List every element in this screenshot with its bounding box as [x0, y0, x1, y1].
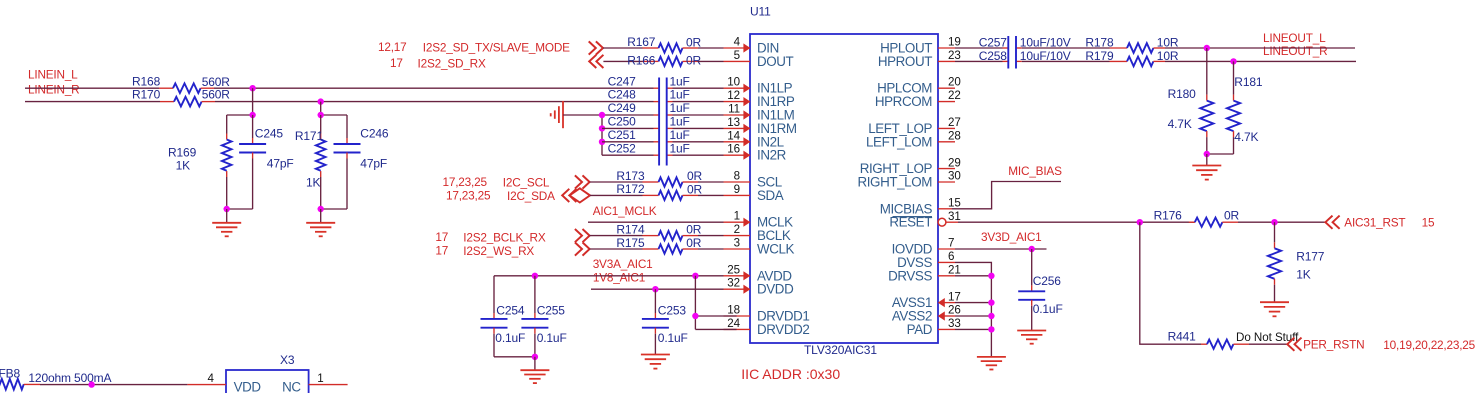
node DRVSS [988, 273, 994, 279]
svg-text:21: 21 [948, 263, 961, 276]
resistor R168 560R [132, 75, 230, 93]
svg-text:14: 14 [727, 129, 740, 142]
svg-text:R178: R178 [1085, 35, 1114, 49]
svg-text:PER_RSTN: PER_RSTN [1303, 338, 1364, 352]
capacitor plates C257/C258 right [1015, 36, 1017, 69]
wire IOVDD [955, 248, 1047, 250]
resistor R441 [1168, 330, 1300, 349]
svg-text:RIGHT_LOM: RIGHT_LOM [857, 175, 932, 190]
capacitor C251 1uF [608, 128, 690, 142]
wire C249 to IN1LM [673, 114, 724, 116]
capacitor plates column left [658, 78, 660, 166]
off-page connector I2S2_SD_TX (right chevrons) [589, 41, 603, 54]
wire R172 to SDA [698, 194, 724, 196]
svg-text:27: 27 [948, 116, 961, 129]
wire bus to C250 [602, 127, 654, 129]
svg-text:LINEIN_R: LINEIN_R [28, 83, 80, 97]
svg-text:0.1uF: 0.1uF [1033, 302, 1063, 316]
wire HPROUT to C258 [955, 60, 1003, 62]
wire 3V3A riser to DRVDD1/DRVDD2 [695, 276, 736, 330]
wire bus to C251 [602, 141, 654, 143]
node at R171 ground [318, 206, 324, 212]
svg-text:LINEOUT_L: LINEOUT_L [1263, 31, 1326, 45]
node R177 tap [1271, 219, 1277, 225]
svg-text:R167: R167 [627, 35, 656, 49]
node at C245 tee [249, 112, 255, 118]
wire R167 to DIN [698, 47, 724, 49]
svg-text:3V3D_AIC1: 3V3D_AIC1 [981, 230, 1042, 244]
pin 19 HPLOUT stub [938, 47, 955, 49]
resistor R177 1K [1268, 222, 1325, 302]
svg-text:R177: R177 [1296, 250, 1325, 264]
node R441 riser [1137, 219, 1143, 225]
svg-text:HPROUT: HPROUT [878, 54, 932, 69]
svg-text:VDD: VDD [234, 380, 262, 393]
svg-text:1K: 1K [176, 159, 191, 173]
SECTION: right pin names [857, 41, 932, 337]
resistor R178 10R [1085, 35, 1178, 53]
pin 21 DRVSS stub [938, 275, 955, 277]
svg-text:18: 18 [727, 304, 740, 317]
capacitor C252 1uF [608, 141, 690, 155]
capacitor C255 0.1uF [521, 276, 566, 357]
wire C254/C255 bottom tee [494, 356, 535, 358]
node bus C250 [599, 125, 605, 131]
wire LINEIN_L left [25, 87, 159, 89]
svg-text:C247: C247 [608, 74, 637, 88]
pin 6 DVSS stub [938, 261, 955, 263]
sideways ground at input caps [551, 101, 563, 128]
node DRVDD riser on AVDD rail [692, 273, 698, 279]
wire LINEIN_R to C248 [215, 101, 654, 103]
svg-text:12: 12 [727, 89, 740, 102]
svg-text:C257: C257 [979, 35, 1008, 49]
pin 22 HPRCOM stub [938, 101, 955, 103]
capacitor C258 10uF/10V [979, 49, 1071, 63]
wire to R172 [590, 194, 643, 196]
resistor R169 1K [168, 115, 232, 209]
svg-text:DOUT: DOUT [757, 54, 794, 69]
capacitor C248 1uF [608, 88, 690, 102]
svg-text:TLV320AIC31: TLV320AIC31 [804, 343, 877, 357]
svg-text:47pF: 47pF [267, 156, 294, 170]
wire LINEIN_L to C247 [214, 87, 654, 89]
pin 3 WCLK stub [724, 248, 751, 250]
capacitor C245 47pF [239, 115, 293, 209]
svg-text:0R: 0R [686, 223, 702, 237]
wire to R173 [590, 181, 643, 183]
svg-text:30: 30 [948, 170, 961, 183]
svg-text:R173: R173 [616, 169, 645, 183]
svg-text:32: 32 [727, 277, 740, 290]
svg-text:IN2R: IN2R [757, 148, 787, 163]
pin 29 RIGHT_LOP stub [938, 168, 955, 170]
resistor R173 0R [616, 169, 702, 187]
svg-text:R441: R441 [1168, 330, 1197, 344]
resistor R167 0R [627, 35, 701, 53]
ground under R177 [1260, 302, 1289, 316]
svg-text:17: 17 [435, 230, 448, 244]
wire AIC1_MCLK to MCLK [588, 221, 724, 223]
pin 5 DOUT stub [724, 60, 751, 62]
svg-text:U11: U11 [750, 5, 771, 19]
pin 32 DVDD stub [724, 288, 751, 290]
node bus C251 [599, 139, 605, 145]
svg-text:PAD: PAD [907, 322, 933, 337]
ground under C254/C255 [520, 357, 549, 383]
svg-text:R176: R176 [1154, 209, 1183, 223]
svg-text:20: 20 [948, 76, 961, 89]
svg-text:17,23,25: 17,23,25 [446, 188, 491, 202]
svg-text:28: 28 [948, 129, 961, 142]
wire FB8 to X3 [40, 384, 187, 386]
node AVSS1 [988, 299, 994, 305]
svg-text:DVDD: DVDD [757, 282, 794, 297]
svg-text:LINEOUT_R: LINEOUT_R [1263, 44, 1327, 58]
svg-text:C255: C255 [537, 304, 566, 318]
wire branch down to R171/C246 [321, 102, 347, 115]
pin 24 DRVDD2 stub [724, 328, 751, 330]
svg-text:1K: 1K [306, 176, 321, 190]
pin 33 PAD stub [938, 328, 955, 330]
svg-text:1uF: 1uF [670, 128, 690, 142]
wire R441 to PER_RSTN [1249, 343, 1287, 345]
node on LINEIN_L [249, 85, 255, 91]
pin 26 AVSS2 stub [944, 315, 955, 317]
node PAD [988, 326, 994, 332]
svg-text:560R: 560R [202, 88, 231, 102]
wire bottom tee R169/C245 [227, 208, 253, 210]
ground under R180 [1192, 154, 1221, 180]
wire bottom tee R171/C246 [321, 208, 347, 210]
svg-text:11: 11 [728, 103, 740, 116]
svg-text:I2C_SCL: I2C_SCL [503, 175, 550, 189]
resistor R180 4.7K [1168, 48, 1214, 154]
pin 4 X3 stub [187, 384, 226, 386]
wire R173 to SCL [698, 181, 724, 183]
svg-text:C251: C251 [608, 128, 637, 142]
capacitor C249 1uF [608, 101, 690, 115]
wire C247 to IN1LP [673, 87, 724, 89]
svg-text:23: 23 [948, 49, 961, 62]
capacitor plates column right [666, 78, 668, 166]
pin 10 IN1LP stub [724, 87, 751, 89]
off-page connector I2C_SDA (bidirectional diamond) [562, 188, 590, 202]
svg-text:1K: 1K [1296, 268, 1311, 282]
capacitor C246 47pF [334, 115, 389, 209]
wire R175 to WCLK [698, 248, 724, 250]
wire ground bus vertical [601, 115, 603, 155]
svg-text:DRVDD2: DRVDD2 [757, 322, 809, 337]
svg-text:19: 19 [948, 36, 961, 49]
svg-text:1uF: 1uF [670, 141, 690, 155]
wire HPLOUT to C257 [955, 47, 1003, 49]
off-page connector I2S2_WS_RX (right chevrons) [575, 242, 590, 255]
svg-text:I2S2_SD_TX/SLAVE_MODE: I2S2_SD_TX/SLAVE_MODE [423, 41, 570, 55]
svg-text:I2S2_WS_RX: I2S2_WS_RX [463, 244, 534, 258]
pin 4 DIN stub [724, 47, 751, 49]
svg-text:5: 5 [734, 49, 740, 62]
node C256 tap [1029, 246, 1035, 252]
svg-text:10,19,20,22,23,25: 10,19,20,22,23,25 [1383, 338, 1475, 352]
svg-text:R170: R170 [132, 87, 161, 101]
svg-text:R181: R181 [1234, 75, 1263, 89]
pin 27 LEFT_LOP stub [938, 127, 955, 129]
wire RESET riser to R441 [1140, 222, 1201, 344]
pin 1 X3 stub [309, 384, 348, 386]
wire AVSS2 to bus [955, 315, 991, 317]
pin 20 HPLCOM stub [938, 87, 955, 89]
wire R174 to BCLK [698, 235, 724, 237]
wire C257 to R178 [1022, 47, 1110, 49]
svg-text:X3: X3 [280, 353, 295, 367]
wire R176 to AIC31_RST [1238, 221, 1325, 223]
svg-text:R174: R174 [616, 222, 645, 236]
pin 31 RESET bubble [938, 218, 946, 226]
node DRVDD1 [692, 313, 698, 319]
wire R179 to LINEOUT_R [1165, 60, 1356, 62]
node R180 tap [1204, 45, 1210, 51]
capacitor C254 0.1uF [481, 276, 526, 357]
svg-text:AIC1_MCLK: AIC1_MCLK [593, 204, 657, 218]
SECTION: left pin stubs [724, 43, 751, 329]
svg-text:15: 15 [1422, 216, 1435, 230]
pin 28 LEFT_LOM stub [938, 141, 955, 143]
pin 25 AVDD stub [724, 275, 751, 277]
svg-text:0.1uF: 0.1uF [537, 331, 567, 345]
svg-text:4.7K: 4.7K [1234, 130, 1258, 144]
pin 30 RIGHT_LOM stub [938, 181, 955, 183]
node bus C249 [599, 112, 605, 118]
svg-text:1: 1 [734, 210, 740, 223]
pin 18 DRVDD1 stub [724, 315, 751, 317]
resistor R176 0R [1154, 209, 1240, 227]
resistor R166 0R [627, 53, 701, 67]
pin 8 SCL stub [724, 181, 751, 183]
wire to R175 [590, 248, 643, 250]
svg-text:7: 7 [948, 237, 954, 250]
svg-text:25: 25 [727, 263, 740, 276]
svg-text:10R: 10R [1157, 35, 1179, 49]
svg-text:15: 15 [948, 197, 961, 210]
svg-text:47pF: 47pF [360, 156, 387, 170]
svg-text:0.1uF: 0.1uF [495, 331, 525, 345]
wire to R166 [603, 60, 642, 62]
node AVSS2 [988, 313, 994, 319]
svg-text:6: 6 [948, 250, 954, 263]
svg-text:C254: C254 [496, 304, 525, 318]
svg-text:R180: R180 [1168, 87, 1197, 101]
svg-text:10: 10 [727, 76, 740, 89]
wire 3V3A_AIC1 to AVDD [494, 275, 724, 277]
svg-text:29: 29 [948, 156, 961, 169]
SECTION: left pin names [757, 41, 809, 337]
wire to R167 [603, 47, 643, 49]
svg-text:22: 22 [948, 89, 961, 102]
svg-text:16: 16 [727, 143, 740, 156]
svg-text:8: 8 [734, 170, 740, 183]
svg-text:0R: 0R [1224, 209, 1240, 223]
svg-text:MIC_BIAS: MIC_BIAS [1008, 164, 1062, 178]
off-page connector I2C_SCL (right chevrons) [575, 175, 590, 188]
svg-text:R171: R171 [295, 129, 324, 143]
wire DRVSS to bus [955, 275, 991, 277]
svg-text:C252: C252 [608, 141, 637, 155]
svg-text:R169: R169 [168, 146, 197, 160]
svg-text:120ohm 500mA: 120ohm 500mA [28, 371, 111, 385]
svg-text:LEFT_LOM: LEFT_LOM [866, 134, 932, 149]
svg-text:4.7K: 4.7K [1168, 117, 1192, 131]
svg-text:17,23,25: 17,23,25 [443, 175, 488, 189]
svg-text:C246: C246 [360, 127, 389, 141]
node R180 ground [1204, 151, 1210, 157]
wire C258 to R179 [1022, 60, 1110, 62]
op-amp U11 body [750, 5, 938, 358]
svg-text:R172: R172 [616, 182, 645, 196]
pin 14 IN2L stub [724, 141, 751, 143]
wire bus to C252 [602, 154, 654, 156]
capacitor C250 1uF [608, 115, 690, 129]
svg-text:3V3A_AIC1: 3V3A_AIC1 [593, 257, 653, 271]
svg-text:9: 9 [734, 183, 740, 196]
svg-text:0R: 0R [686, 54, 702, 68]
wire to R174 [590, 235, 643, 237]
wire PAD to bus [955, 328, 991, 330]
pin 7 IOVDD stub [938, 248, 955, 250]
resistor R172 0R [616, 182, 702, 200]
wire RESET to R176 [958, 221, 1195, 223]
pin 23 HPROUT stub [938, 60, 955, 62]
off-page connector PER_RSTN (left chevrons) [1287, 338, 1301, 351]
capacitor C247 1uF [608, 74, 690, 88]
svg-text:1: 1 [317, 372, 323, 385]
node R181 tap [1230, 58, 1236, 64]
svg-text:IIC ADDR :0x30: IIC ADDR :0x30 [741, 366, 840, 382]
wire DVSS to bus [955, 262, 991, 357]
ground under R171 [306, 209, 335, 236]
resistor R181 4.7K [1227, 61, 1263, 154]
svg-text:DRVSS: DRVSS [888, 268, 932, 283]
wire branch down to R169/C245 [227, 88, 253, 115]
connector X3 body [226, 353, 309, 393]
svg-text:13: 13 [727, 116, 740, 129]
SECTION: right pin numbers [948, 36, 961, 330]
svg-text:0R: 0R [686, 236, 702, 250]
resistor R171 1K [295, 115, 326, 209]
svg-text:SDA: SDA [757, 188, 784, 203]
svg-text:0.1uF: 0.1uF [658, 331, 688, 345]
pin 1 MCLK stub [724, 221, 751, 223]
ground under C253 [641, 355, 670, 369]
pin 12 IN1RP stub [724, 101, 751, 103]
svg-text:1uF: 1uF [670, 74, 690, 88]
svg-text:C245: C245 [255, 127, 284, 141]
wire MICBIAS to MIC_BIAS [952, 182, 1061, 209]
SECTION: right pin stubs [938, 48, 958, 329]
off-page connector I2S2_BCLK_RX (right chevrons) [575, 229, 590, 242]
svg-text:C256: C256 [1033, 274, 1062, 288]
node at R171 tee [318, 112, 324, 118]
off-page connector AIC31_RST (left chevrons) [1325, 216, 1339, 229]
svg-text:C249: C249 [608, 101, 637, 115]
svg-text:0R: 0R [687, 183, 703, 197]
capacitor plates C257/C258 left [1007, 36, 1009, 69]
wire R178 to LINEOUT_L [1165, 47, 1355, 49]
wire ground to C249 [563, 114, 654, 116]
svg-text:LINEIN_L: LINEIN_L [28, 68, 78, 82]
pin 2 BCLK stub [724, 235, 751, 237]
pin 15 MICBIAS stub [938, 208, 952, 210]
wire C248 to IN1RP [673, 101, 724, 103]
svg-text:17: 17 [390, 56, 403, 70]
svg-text:0R: 0R [687, 169, 703, 183]
SECTION: left pin numbers [727, 36, 740, 330]
node C255 on AVDD rail [532, 273, 538, 279]
svg-text:31: 31 [948, 210, 961, 223]
svg-text:R175: R175 [616, 236, 645, 250]
svg-text:I2S2_BCLK_RX: I2S2_BCLK_RX [463, 230, 546, 244]
svg-text:C258: C258 [979, 49, 1008, 63]
wire LINEIN_R left [25, 101, 160, 103]
svg-text:24: 24 [727, 317, 740, 330]
wire R180/R181 bottom tee [1207, 153, 1234, 155]
resistor R175 0R [616, 236, 701, 254]
wire C251 to IN2L [673, 141, 724, 143]
pin 16 IN2R stub [724, 154, 751, 156]
svg-text:1V8_AIC1: 1V8_AIC1 [593, 271, 645, 285]
node on LINEIN_R [318, 98, 324, 104]
pin 11 IN1LM stub [724, 114, 751, 116]
ground under bus [977, 357, 1006, 370]
svg-text:C253: C253 [658, 304, 687, 318]
resistor R170 560R [132, 87, 230, 106]
wire C252 to IN2R [673, 154, 724, 156]
svg-text:AIC31_RST: AIC31_RST [1344, 216, 1405, 230]
svg-text:I2S2_SD_RX: I2S2_SD_RX [418, 57, 486, 71]
node C255 ground [532, 354, 538, 360]
svg-text:C248: C248 [608, 88, 637, 102]
svg-text:26: 26 [948, 304, 961, 317]
svg-text:4: 4 [734, 36, 741, 49]
off-page connector I2S2_SD_RX (left chevrons) [589, 55, 603, 68]
ferrite bead FB8 [0, 367, 111, 390]
svg-text:HPRCOM: HPRCOM [875, 94, 932, 109]
svg-text:2: 2 [734, 223, 740, 236]
capacitor C253 0.1uF [642, 289, 688, 354]
node at R169 ground [224, 206, 230, 212]
resistor R174 0R [616, 222, 701, 240]
svg-text:NC: NC [282, 380, 301, 393]
svg-text:C250: C250 [608, 115, 637, 129]
svg-text:1uF: 1uF [670, 88, 690, 102]
resistor R179 10R [1085, 49, 1178, 66]
svg-text:12,17: 12,17 [378, 40, 407, 54]
svg-text:17: 17 [948, 290, 961, 303]
svg-text:I2C_SDA: I2C_SDA [507, 189, 555, 203]
wire AVSS1 to bus [955, 302, 991, 304]
pin 13 IN1RM stub [724, 127, 751, 129]
wire C250 to IN1RM [673, 127, 724, 129]
svg-text:WCLK: WCLK [757, 242, 795, 257]
wire 1V8_AIC1 to DVDD [591, 288, 724, 290]
svg-text:R179: R179 [1085, 49, 1114, 63]
svg-text:17: 17 [435, 243, 448, 257]
svg-text:4: 4 [208, 372, 215, 385]
pin 9 SDA stub [724, 194, 751, 196]
ground under R169 [212, 209, 241, 236]
node on FB8 wire [88, 381, 94, 387]
wire R166 to DOUT [698, 60, 724, 62]
